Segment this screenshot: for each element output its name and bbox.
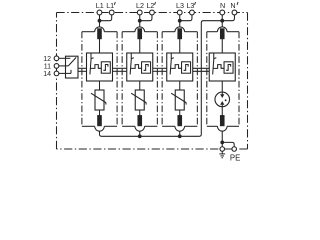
svg-text:N: N	[220, 1, 225, 10]
thermal disconnector bar top M2	[138, 29, 142, 39]
module M3 frame bottom edge	[162, 125, 175, 127]
wire to PE terminal right	[222, 142, 234, 146]
disconnect switch M3	[170, 53, 172, 59]
disconnector arc top M3	[175, 27, 185, 32]
svg-text:11: 11	[44, 64, 51, 71]
wire varistor down M3	[179, 110, 181, 116]
disconnector arc bottom M4	[217, 126, 227, 131]
wire junction to disconnector	[139, 21, 141, 27]
thermal disconnector bar top M1	[98, 29, 102, 39]
node L3 junction	[178, 19, 182, 23]
thermal disconnector bar bottom M1	[98, 115, 102, 126]
wire L2´ jog to junction	[140, 15, 152, 21]
module M1 frame left side (dash-dot)	[81, 32, 83, 127]
wire box to arrester M4	[221, 81, 223, 92]
module M1 frame right side (dash-dot)	[116, 32, 118, 127]
thermal disconnector bar top M4	[220, 29, 224, 39]
module M1 frame top edge	[82, 31, 95, 33]
monitor element M3	[182, 62, 191, 73]
module M2 frame left side (dash-dot)	[121, 32, 123, 127]
module M3 frame left side (dash-dot)	[161, 32, 163, 127]
svg-text:L2: L2	[136, 1, 144, 10]
disconnector arc top M2	[135, 27, 145, 32]
wire disconnector to box M3	[179, 39, 181, 53]
wire disconnector to box M1	[99, 39, 101, 53]
module M4 frame right side (dash-dot)	[238, 32, 240, 127]
changeover blade	[68, 57, 76, 66]
wire 11	[59, 65, 69, 67]
PE terminal 1	[220, 147, 225, 152]
module M2 frame top edge	[122, 31, 135, 33]
module M2 frame bottom edge	[122, 125, 135, 127]
svg-text:N: N	[230, 1, 235, 10]
wire L3´ jog to junction	[180, 15, 192, 21]
mechanical linkage M2 to M3	[153, 67, 167, 69]
wire L1´ jog to junction	[100, 15, 112, 21]
module M3 frame right side (dash-dot)	[196, 32, 198, 127]
wire L3 down to junction	[179, 15, 181, 21]
svg-text:PE: PE	[230, 153, 240, 162]
module M1 frame bottom edge	[82, 125, 95, 127]
varistor M2	[135, 90, 144, 110]
linkage wave M3	[171, 65, 182, 69]
monitoring box M3	[167, 53, 193, 81]
monitor element M1	[101, 62, 110, 73]
thermal disconnector bar bottom M4	[220, 115, 224, 126]
varistor M3	[175, 90, 184, 110]
disconnector arc top M4	[217, 27, 227, 32]
wire disconnector to box M2	[139, 39, 141, 53]
mechanical linkage M3 to M4	[193, 67, 210, 69]
wire L2 down to junction	[139, 15, 141, 21]
module M4 frame bottom edge	[207, 125, 218, 127]
ground symbol	[221, 151, 223, 154]
node L1 junction	[98, 19, 102, 23]
wire varistor down M2	[139, 110, 141, 116]
monitoring box M1	[87, 53, 113, 81]
wire box to arrester M1	[99, 81, 101, 90]
wire spark gap to PE node	[221, 131, 223, 142]
wire disconnector to box M4	[221, 39, 223, 53]
module M4 frame left side (dash-dot)	[206, 32, 208, 127]
linkage wave M1	[90, 65, 101, 69]
thermal disconnector bar bottom M2	[138, 115, 142, 126]
mechanical linkage M1 to M2	[113, 67, 127, 69]
node bus M2	[138, 134, 142, 138]
svg-text:L2: L2	[146, 1, 154, 10]
svg-text:14: 14	[43, 71, 51, 78]
varistor M1	[95, 90, 104, 110]
wire junction to disconnector	[221, 21, 223, 27]
PE terminal 2	[232, 147, 237, 152]
wire 14	[59, 72, 71, 74]
wire varistor down M1	[99, 110, 101, 116]
spark gap (gas discharge tube) N-PE	[215, 92, 230, 107]
svg-text:L1: L1	[106, 1, 114, 10]
wire L1 down to junction	[99, 15, 101, 21]
wire M3 arc to bus	[179, 131, 181, 136]
svg-text:12: 12	[43, 56, 51, 63]
monitoring box M2	[127, 53, 153, 81]
module M2 frame right side (dash-dot)	[156, 32, 158, 127]
mechanical linkage relay to M1	[78, 67, 87, 69]
disconnector arc bottom M1	[95, 126, 105, 131]
linkage wave M4	[213, 65, 224, 69]
svg-text:L3: L3	[186, 1, 194, 10]
device outline border (dash-dot)	[57, 12, 248, 14]
monitor element M2	[142, 62, 151, 73]
wire junction to disconnector	[179, 21, 181, 27]
bus to N (3+1 circuit)	[102, 21, 223, 137]
node N junction	[220, 19, 224, 23]
disconnect switch M4	[213, 53, 215, 59]
svg-text:L1: L1	[96, 1, 104, 10]
thermal disconnector bar bottom M3	[178, 115, 182, 126]
contact 14 tick	[70, 70, 72, 74]
disconnector arc bottom M3	[175, 126, 185, 131]
disconnect switch M2	[130, 53, 132, 59]
linkage wave M2	[131, 65, 142, 69]
wire spark gap down	[221, 107, 223, 116]
disconnector arc top M1	[95, 27, 105, 32]
node PE junction	[220, 141, 224, 145]
wire M1 arc to bus	[100, 131, 102, 136]
relay contact box	[66, 56, 79, 78]
thermal disconnector bar top M3	[178, 29, 182, 39]
wire junction to disconnector	[99, 21, 101, 27]
node L2 junction	[138, 19, 142, 23]
wire M2 arc to bus	[139, 131, 141, 136]
module M3 frame top edge	[162, 31, 175, 33]
disconnect switch M1	[90, 53, 92, 59]
wire N down to junction	[221, 15, 223, 21]
wire N´ jog to junction	[222, 15, 234, 21]
monitoring box M4	[209, 53, 235, 81]
monitor element M4	[224, 62, 233, 73]
wire box to arrester M2	[139, 81, 141, 90]
node bus M3	[178, 134, 182, 138]
wire box to arrester M3	[179, 81, 181, 90]
module M4 frame top edge	[207, 31, 218, 33]
wire to PE terminal left	[221, 142, 223, 146]
svg-text:L3: L3	[176, 1, 184, 10]
wire 12	[59, 57, 71, 59]
disconnector arc bottom M2	[135, 126, 145, 131]
